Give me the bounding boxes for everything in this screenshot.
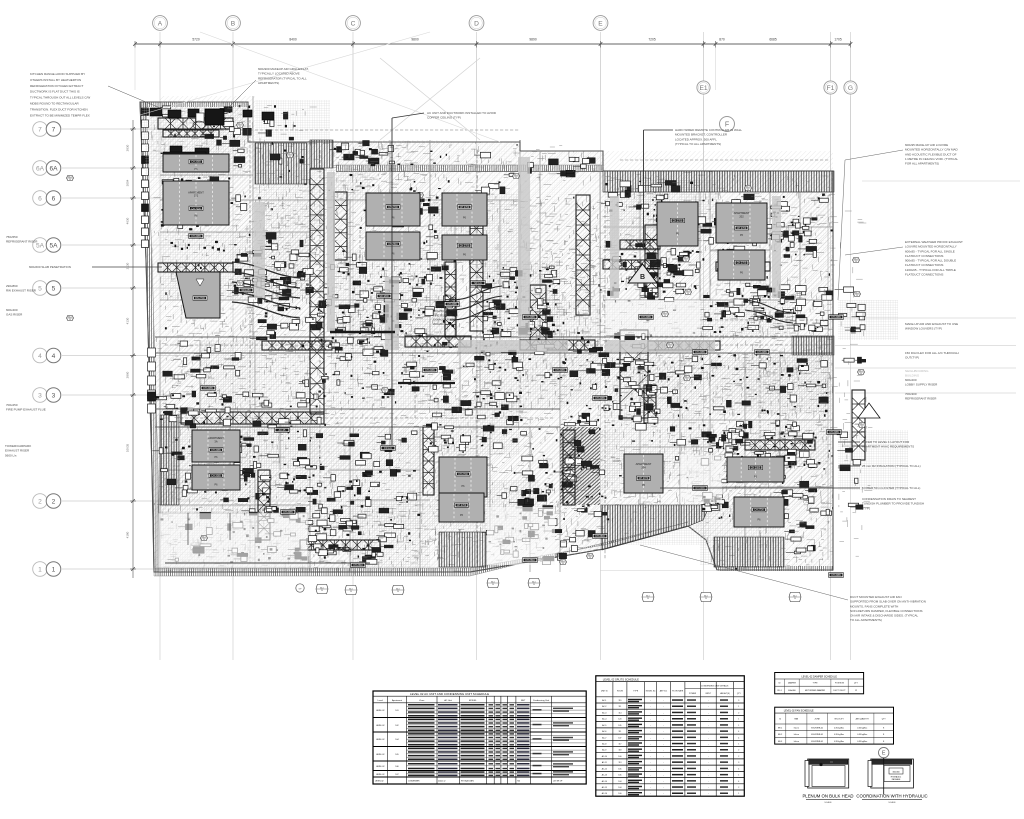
svg-text:LEVEL-02 FAN SCHEDULE: LEVEL-02 FAN SCHEDULE: [784, 709, 814, 712]
svg-text:600x95 MAKE-UP AIR LOUVRE: 600x95 MAKE-UP AIR LOUVRE: [905, 143, 948, 147]
svg-text:CH 2540: CH 2540: [525, 559, 535, 562]
apartment block right A: [657, 202, 698, 246]
svg-text:CH 2085: CH 2085: [695, 487, 705, 490]
svg-text:CH 2700: CH 2700: [673, 220, 683, 223]
svg-text:CH 2085: CH 2085: [695, 351, 705, 354]
svg-text:DUCT MOUNTED EXHAUST AIR FAN: DUCT MOUNTED EXHAUST AIR FAN: [850, 595, 902, 599]
equipment cluster: [761, 316, 764, 319]
svg-text:1: 1: [738, 744, 739, 746]
fgrid right wing rooms: [605, 357, 705, 419]
svg-text:APARTMENT: APARTMENT: [188, 190, 204, 194]
svg-text:LOCATED APPROX. 500 AFFL: LOCATED APPROX. 500 AFFL: [675, 137, 717, 141]
svg-text:MAKE-UP AIR AND EXHAUST TO USE: MAKE-UP AIR AND EXHAUST TO USE: [905, 322, 958, 326]
svg-text:150 DIA FLEX FOR ALL A/C THROU: 150 DIA FLEX FOR ALL A/C THROUGH: [905, 351, 959, 355]
svg-text:EF-1: EF-1: [778, 728, 782, 730]
svg-text:104: 104: [618, 781, 621, 783]
svg-text:AC-4: AC-4: [602, 718, 606, 721]
equipment cluster: [291, 250, 298, 254]
svg-text:119: 119: [618, 700, 621, 702]
svg-text:FIRE PUMP EXHAUST FLUE: FIRE PUMP EXHAUST FLUE: [6, 408, 46, 412]
apartment block lower-mid A: [439, 457, 487, 497]
svg-text:FLOW RATE: FLOW RATE: [672, 690, 684, 693]
svg-text:90: 90: [239, 284, 241, 286]
svg-text:Daikin x2: Daikin x2: [438, 781, 445, 783]
svg-text:600x900 MAKEUP AIR GRILLE/FLAT: 600x900 MAKEUP AIR GRILLE/FLAT,: [258, 67, 309, 71]
svg-text:90: 90: [384, 391, 386, 393]
svg-text:106: 106: [395, 766, 398, 768]
equipment cluster: [651, 184, 662, 187]
svg-text:RW EXHAUST RISER: RW EXHAUST RISER: [6, 289, 37, 293]
svg-text:InLine: InLine: [794, 734, 799, 736]
svg-text:CH 2085: CH 2085: [829, 431, 839, 434]
svg-text:90: 90: [321, 590, 323, 592]
comb strip top-right wing: [603, 171, 834, 192]
equipment cluster: [376, 305, 381, 310]
labelbox centre: [445, 302, 460, 307]
svg-text:90: 90: [289, 156, 291, 158]
row grid line extensions right: [835, 317, 1016, 319]
bottom reference tags: [316, 585, 328, 594]
svg-text:CH 2070: CH 2070: [639, 477, 649, 480]
apartment block lower-mid B: [439, 493, 484, 522]
svg-text:TO ALL APARTMENTS): TO ALL APARTMENTS): [850, 618, 882, 622]
hex tag: [560, 559, 567, 564]
svg-text:105: 105: [395, 754, 398, 756]
grey shaft strips: [385, 277, 399, 350]
svg-text:6A: 6A: [36, 165, 45, 172]
column grid lines: [159, 32, 161, 660]
svg-text:CH 2085: CH 2085: [555, 369, 565, 372]
apartment block mid A: [366, 193, 420, 226]
AC units row top-left: [150, 108, 162, 116]
svg-text:APARTMENT HVAC REQUIREMENTS: APARTMENT HVAC REQUIREMENTS: [862, 445, 914, 449]
svg-text:MDBS ROUND TO RECTANGULAR: MDBS ROUND TO RECTANGULAR: [30, 102, 80, 106]
equipment cluster: [502, 493, 507, 499]
svg-text:TYPICALLY LOCATED ABOVE: TYPICALLY LOCATED ABOVE: [258, 72, 300, 76]
equipment cluster: [537, 344, 547, 351]
svg-text:CH 2700: CH 2700: [460, 206, 470, 209]
svg-text:111: 111: [619, 731, 622, 733]
svg-text:D: D: [474, 20, 479, 27]
svg-text:0.35 kg/Sec: 0.35 kg/Sec: [857, 734, 867, 736]
svg-text:CH 2085: CH 2085: [641, 316, 651, 319]
svg-text:1 METRE IN CEILING VOID. (TYPI: 1 METRE IN CEILING VOID. (TYPICAL: [905, 157, 958, 161]
svg-text:0.35 kg/Sec: 0.35 kg/Sec: [834, 734, 844, 736]
hex tag: [684, 375, 691, 380]
svg-text:90: 90: [589, 557, 591, 559]
row bubble 6: [33, 191, 48, 206]
corridor duct run B: [648, 341, 720, 350]
svg-text:7: 7: [52, 126, 56, 133]
svg-text:25 mm R2 INSULATION (TYPICAL T: 25 mm R2 INSULATION (TYPICAL TO ALL): [862, 464, 921, 468]
apartment block lower-right B: [734, 497, 784, 527]
svg-text:MOUNTED BRACKET, CONTROLLER: MOUNTED BRACKET, CONTROLLER: [675, 133, 728, 137]
svg-text:4: 4: [738, 731, 739, 733]
hex tag: [287, 152, 294, 157]
comb strip upper-left: [255, 143, 307, 184]
svg-text:COFFER CEILING (TYP): COFFER CEILING (TYP): [427, 116, 461, 120]
faint bottom continuation: [600, 570, 720, 572]
equipment cluster: [711, 504, 719, 510]
hex tag: [237, 122, 244, 127]
svg-text:B: B: [231, 20, 236, 27]
svg-text:8400: 8400: [289, 38, 297, 42]
svg-text:7: 7: [38, 126, 42, 133]
svg-text:90: 90: [69, 319, 71, 321]
svg-text:TYPICAL THROUGH OUT ALL LEVELS: TYPICAL THROUGH OUT ALL LEVELS C/W: [30, 96, 90, 100]
svg-text:HARD WIRED REMOTE CONTROLLER I: HARD WIRED REMOTE CONTROLLER IN WALL: [675, 128, 742, 132]
duct horizontal 5A right: [603, 260, 660, 269]
svg-text:LOBBY SUPPLY RISER: LOBBY SUPPLY RISER: [905, 383, 938, 387]
svg-text:900x95 - TYPICAL FOR ALL DOUB: 900x95 - TYPICAL FOR ALL DOUBLE: [905, 259, 956, 263]
svg-text:2: 2: [52, 498, 56, 505]
svg-text:MODEL: MODEL: [469, 700, 478, 702]
equipment cluster: [510, 277, 515, 280]
svg-text:LEVEL 02 AC UNIT AND CONDENSIN: LEVEL 02 AC UNIT AND CONDENSING UNIT SCH…: [410, 692, 489, 696]
row grid lines: [62, 128, 190, 130]
duct ladder E column: [576, 195, 590, 315]
svg-text:EX-INTER-01: EX-INTER-01: [811, 734, 823, 736]
svg-text:102: 102: [395, 725, 398, 727]
svg-text:LEVEL 02: LEVEL 02: [375, 781, 383, 783]
svg-text:SD L/A: SD L/A: [474, 282, 482, 285]
svg-text:104: 104: [395, 739, 398, 741]
row bubble 1: [33, 562, 48, 577]
comb strip bottom-centre: [439, 532, 486, 567]
svg-text:CH 7000: CH 7000: [191, 207, 201, 210]
duct riser ladder central-left: [310, 169, 324, 414]
extra noise corridors: [164, 353, 568, 414]
svg-text:5 FIBER 50 mm FILTER (TYPICAL: 5 FIBER 50 mm FILTER (TYPICAL TO ALL): [862, 486, 920, 490]
svg-text:0.35 kg/Sec: 0.35 kg/Sec: [857, 741, 867, 743]
svg-text:12: 12: [855, 690, 857, 692]
svg-text:CH 2700: CH 2700: [737, 227, 747, 230]
svg-text:OTHERS INSTALL BY HEATHERTON: OTHERS INSTALL BY HEATHERTON: [30, 78, 81, 82]
svg-text:ON AIR INTAKE & DISCHARGE SIDE: ON AIR INTAKE & DISCHARGE SIDES. (TYPICA…: [850, 614, 918, 618]
svg-text:600x95 - TYPICAL FOR ALL SING: 600x95 - TYPICAL FOR ALL SINGLE: [905, 249, 955, 253]
hex tag: [67, 175, 74, 180]
svg-text:CH 2085: CH 2085: [447, 303, 457, 306]
svg-text:FLATDUCT CONNECTIONS: FLATDUCT CONNECTIONS: [905, 263, 943, 267]
svg-text:101: 101: [395, 710, 398, 712]
svg-text:InLine: InLine: [794, 728, 799, 730]
equipment cluster: [781, 285, 787, 288]
equipment cluster: [235, 353, 241, 360]
svg-text:CH 2085: CH 2085: [211, 475, 221, 478]
detail coordination with hydraulic: [879, 747, 889, 757]
bottom edge band right: [717, 566, 833, 571]
svg-text:CH 2085: CH 2085: [191, 161, 201, 164]
svg-text:Level: Level: [378, 700, 384, 702]
apartment block mid B: [442, 193, 487, 226]
svg-text:5720: 5720: [192, 38, 200, 42]
comb strip upper-left 2: [310, 140, 333, 168]
duct vertical bottom left: [258, 470, 270, 540]
svg-text:CH 2085: CH 2085: [191, 235, 201, 238]
svg-text:5: 5: [52, 285, 56, 292]
svg-text:EX-INTER-01: EX-INTER-01: [811, 741, 823, 743]
svg-text:Apartment: Apartment: [392, 699, 402, 702]
svg-text:107: 107: [395, 774, 398, 776]
left vertical dimension line: [132, 120, 134, 578]
svg-text:FLATDUCT CONNECTIONS: FLATDUCT CONNECTIONS: [905, 254, 943, 258]
hex tag: [382, 387, 389, 392]
svg-text:1: 1: [38, 566, 42, 573]
duct vertical 5A: [530, 285, 546, 345]
svg-text:CONDENSING UNIT DETAILS: CONDENSING UNIT DETAILS: [701, 685, 729, 688]
svg-text:CH 2085: CH 2085: [283, 511, 293, 514]
equipment cluster: [359, 150, 365, 155]
svg-text:4130: 4130: [126, 317, 130, 324]
grid bubble B: [226, 16, 241, 31]
apartment block APARTMENT 204: [624, 454, 663, 493]
svg-text:CH 2085: CH 2085: [831, 316, 841, 319]
schedule table dampers: [775, 673, 864, 694]
top dimension line: [135, 43, 851, 45]
hex tag: [174, 157, 181, 162]
comb wedge bottom-right: [601, 505, 710, 550]
row bubble 7: [33, 122, 48, 137]
svg-text:90: 90: [685, 260, 687, 262]
svg-text:105: 105: [618, 725, 621, 727]
equipment cluster: [214, 199, 218, 205]
equipment cluster: [811, 545, 815, 551]
svg-text:SCALE: SCALE: [888, 801, 896, 804]
svg-text:SD 1800: SD 1800: [379, 295, 389, 298]
svg-text:0.35 kg/Sec: 0.35 kg/Sec: [834, 741, 844, 743]
flex duct curves: [232, 262, 300, 278]
svg-text:2: 2: [738, 750, 739, 752]
apartment block right C: [718, 250, 765, 280]
svg-text:A: A: [158, 20, 163, 27]
svg-text:AC Unit: AC Unit: [444, 699, 452, 702]
svg-text:E1: E1: [699, 85, 707, 92]
grid bubble D: [469, 16, 484, 31]
svg-text:290x890: 290x890: [6, 284, 18, 288]
svg-text:700x250: 700x250: [6, 403, 18, 407]
equipment cluster: [703, 223, 712, 226]
svg-text:90: 90: [69, 179, 71, 181]
row bubble 6A: [33, 161, 48, 176]
equipment cluster: [237, 254, 248, 261]
svg-text:EX-INTER-01: EX-INTER-01: [811, 728, 823, 730]
svg-text:LEVEL 02: LEVEL 02: [376, 754, 384, 756]
svg-text:CH 2085: CH 2085: [211, 449, 221, 452]
apartment block mid C: [366, 232, 420, 260]
svg-text:APARTMENT: APARTMENT: [636, 462, 652, 466]
equipment cluster: [574, 440, 581, 446]
fine grid patches: [142, 104, 248, 144]
svg-text:1: 1: [738, 719, 739, 721]
svg-text:6685: 6685: [769, 38, 777, 42]
svg-text:600x200: 600x200: [905, 378, 917, 382]
svg-text:CH 2085: CH 2085: [203, 387, 213, 390]
svg-text:2860: 2860: [126, 371, 130, 378]
svg-text:HEIGHT(S): HEIGHT(S): [720, 693, 730, 695]
thick duct centre: [330, 331, 395, 334]
svg-text:CH 2540: CH 2540: [353, 564, 363, 567]
equipment cluster: [404, 247, 408, 251]
svg-text:BUILDING: BUILDING: [905, 374, 920, 378]
svg-text:DUCT / DUCT: DUCT / DUCT: [833, 690, 846, 692]
svg-text:90: 90: [350, 591, 352, 593]
grid bubble E: [593, 16, 608, 31]
svg-text:TYPE: TYPE: [813, 683, 819, 685]
dashed duct centrelines: [165, 344, 830, 346]
mid-section top tick band: [336, 165, 603, 172]
hatch patches: [255, 200, 325, 300]
svg-text:90: 90: [687, 293, 689, 295]
svg-text:AC-9: AC-9: [602, 749, 606, 752]
svg-text:3: 3: [738, 762, 739, 764]
schedule table AC units: [373, 691, 586, 784]
svg-text:8: 8: [883, 734, 884, 736]
svg-text:AC-7: AC-7: [602, 736, 606, 739]
svg-text:3: 3: [738, 700, 739, 702]
hex tag: [667, 342, 674, 347]
svg-text:CH 2700: CH 2700: [460, 245, 470, 248]
apartment block lower-right A: [727, 457, 784, 482]
row bubble 3: [33, 388, 48, 403]
equipment cluster: [507, 420, 514, 425]
svg-text:ROOM: ROOM: [617, 691, 623, 693]
svg-text:APARTMENT: APARTMENT: [208, 436, 224, 440]
svg-text:GAS RISER: GAS RISER: [6, 313, 23, 317]
svg-text:CH 2700: CH 2700: [737, 262, 747, 265]
svg-text:90: 90: [855, 261, 857, 263]
svg-text:4: 4: [738, 737, 739, 739]
grid bubble A: [153, 16, 168, 31]
comb patch right corridor: [792, 336, 834, 355]
svg-text:NON-RETURN DAMPER, FLEXIBLE CO: NON-RETURN DAMPER, FLEXIBLE CONNECTIONS: [850, 609, 923, 613]
svg-text:300x300: 300x300: [893, 772, 900, 774]
left edge risers lower: [148, 348, 156, 357]
svg-text:114: 114: [618, 712, 621, 714]
svg-text:5: 5: [38, 285, 42, 292]
duct ladder centre: [470, 214, 483, 331]
equipment cluster: [587, 158, 595, 164]
equipment cluster: [853, 460, 861, 465]
svg-text:FD-1: FD-1: [777, 690, 781, 692]
hex tag: [858, 369, 865, 374]
svg-text:B: B: [640, 274, 645, 281]
svg-text:PACKAGE: PACKAGE: [892, 778, 901, 781]
svg-text:CH 2085: CH 2085: [751, 467, 761, 470]
svg-text:9890: 9890: [529, 38, 537, 42]
svg-text:LEVEL 02: LEVEL 02: [376, 739, 384, 741]
grid bubble F1: [824, 81, 837, 94]
duct horizontal top-left: [158, 118, 233, 129]
svg-text:90: 90: [492, 584, 494, 586]
duct horizontal corridor lower: [181, 412, 324, 424]
apartment block top-left upper: [163, 154, 229, 172]
svg-text:2: 2: [738, 712, 739, 714]
svg-text:107: 107: [618, 737, 621, 739]
svg-text:90: 90: [747, 189, 749, 191]
svg-text:105: 105: [618, 768, 621, 770]
equipment cluster: [650, 261, 659, 267]
duct ladder mid: [334, 192, 347, 260]
finned duct top-left: [163, 130, 219, 137]
svg-text:FAN: FAN: [794, 718, 798, 721]
svg-text:ZONE: ZONE: [815, 719, 821, 721]
black blob scatter: [233, 135, 235, 137]
svg-text:90: 90: [515, 177, 517, 179]
svg-text:870: 870: [719, 38, 725, 42]
svg-text:4: 4: [52, 353, 56, 360]
svg-text:AC-1: AC-1: [602, 699, 606, 702]
svg-text:8: 8: [883, 728, 884, 730]
svg-text:90: 90: [533, 584, 535, 586]
svg-text:TOWER/CARPARK: TOWER/CARPARK: [5, 444, 31, 448]
svg-text:CH 2700: CH 2700: [458, 473, 468, 476]
left edge riser boxes: [142, 108, 149, 116]
svg-text:(TYPICAL TO ALL APARTMENTS): (TYPICAL TO ALL APARTMENTS): [675, 142, 721, 146]
svg-text:DN 2700: DN 2700: [195, 297, 205, 300]
scattered equipment label boxes: [189, 234, 204, 239]
svg-text:Condensing Unit: Condensing Unit: [533, 699, 550, 702]
apartment block trapezoid level5: [176, 272, 220, 318]
svg-text:105: 105: [618, 775, 621, 777]
svg-text:AND ACOUSTIC FLEXIBLE DUCT OF: AND ACOUSTIC FLEXIBLE DUCT OF: [905, 152, 957, 156]
svg-text:AC-8: AC-8: [602, 743, 606, 746]
svg-text:RET: RET: [521, 700, 526, 702]
svg-text:F1: F1: [827, 85, 835, 92]
svg-text:CH 2540: CH 2540: [388, 243, 398, 246]
grid bubble F: [720, 117, 735, 132]
svg-text:POWER: POWER: [689, 693, 697, 695]
hex tag: [853, 257, 860, 262]
svg-text:AC-5: AC-5: [602, 724, 606, 727]
svg-text:REFRIGERANT RISER: REFRIGERANT RISER: [6, 240, 38, 244]
svg-text:TYPE: TYPE: [633, 691, 639, 693]
svg-text:3A: 3A: [214, 439, 217, 443]
svg-text:UNIT ID: UNIT ID: [601, 691, 608, 693]
hex tag: [237, 280, 244, 285]
svg-text:LOUVRE MOUNTED HORIZONTALLY: LOUVRE MOUNTED HORIZONTALLY: [905, 245, 957, 249]
equipment cluster: [786, 456, 791, 462]
extra bottom-left clusters: [274, 532, 281, 536]
svg-text:200x200: 200x200: [433, 322, 444, 326]
equipment cluster: [503, 540, 510, 544]
svg-text:CH 2700: CH 2700: [388, 206, 398, 209]
svg-text:5600 L/s: 5600 L/s: [5, 453, 17, 457]
svg-text:0.35 kg/Sec: 0.35 kg/Sec: [834, 728, 844, 730]
svg-text:AIR VOL: AIR VOL: [660, 690, 667, 693]
svg-text:600x400: 600x400: [6, 308, 18, 312]
hex tag: [67, 315, 74, 320]
svg-text:TUNDISH PLUMBER TO PROVIDE TUN: TUNDISH PLUMBER TO PROVIDE TUNDISH: [862, 502, 924, 506]
svg-text:7205: 7205: [648, 38, 656, 42]
svg-text:MOUNTS, FANS COMPLETE WITH: MOUNTS, FANS COMPLETE WITH: [850, 604, 898, 608]
svg-text:90: 90: [860, 373, 862, 375]
svg-text:4: 4: [38, 353, 42, 360]
building outline with hatch fill: [140, 102, 833, 572]
svg-text:PLENUM ON BULK HEAD: PLENUM ON BULK HEAD: [802, 794, 853, 799]
svg-text:FIRE PUMP ROOM: FIRE PUMP ROOM: [433, 313, 458, 317]
svg-text:3: 3: [38, 392, 42, 399]
svg-text:APARTMENTS): APARTMENTS): [258, 81, 279, 85]
corridor walls strong: [155, 336, 833, 338]
svg-text:FLATDUCT CONNECTIONS: FLATDUCT CONNECTIONS: [905, 273, 943, 277]
svg-text:REFER TO LEVEL 1 LAYOUT FOR: REFER TO LEVEL 1 LAYOUT FOR: [862, 440, 910, 444]
hex tag: [854, 291, 861, 296]
svg-text:LEVEL 02: LEVEL 02: [376, 710, 384, 712]
extra right wing clusters: [606, 201, 610, 205]
duct horizontal bottom right: [745, 440, 815, 450]
svg-text:EXTERNAL WEATHER PROOF EXHAUST: EXTERNAL WEATHER PROOF EXHAUST: [905, 240, 963, 244]
leader line long vertical: [391, 118, 393, 445]
